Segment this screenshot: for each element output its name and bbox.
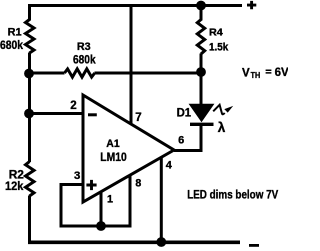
svg-text:TH: TH bbox=[251, 71, 261, 80]
svg-text:8: 8 bbox=[135, 178, 141, 190]
svg-text:6V: 6V bbox=[275, 65, 288, 79]
svg-text:R3: R3 bbox=[77, 41, 91, 53]
svg-text:D1: D1 bbox=[177, 105, 192, 119]
svg-text:V: V bbox=[242, 67, 250, 79]
svg-text:680k: 680k bbox=[73, 53, 96, 67]
svg-text:7: 7 bbox=[135, 112, 141, 124]
svg-text:LED dims below 7V: LED dims below 7V bbox=[187, 188, 278, 202]
svg-text:3: 3 bbox=[74, 170, 80, 182]
svg-text:1: 1 bbox=[107, 194, 113, 206]
svg-text:4: 4 bbox=[166, 160, 173, 172]
svg-text:R4: R4 bbox=[209, 28, 223, 39]
svg-text:λ: λ bbox=[218, 120, 226, 135]
svg-text:680k: 680k bbox=[0, 38, 23, 52]
svg-text:R1: R1 bbox=[8, 27, 23, 39]
svg-text:12k: 12k bbox=[5, 179, 24, 193]
svg-text:6: 6 bbox=[178, 135, 184, 147]
svg-text:A1: A1 bbox=[106, 138, 120, 150]
svg-text:2: 2 bbox=[70, 99, 76, 112]
svg-text:1.5k: 1.5k bbox=[209, 42, 229, 54]
svg-text:LM10: LM10 bbox=[100, 150, 127, 164]
